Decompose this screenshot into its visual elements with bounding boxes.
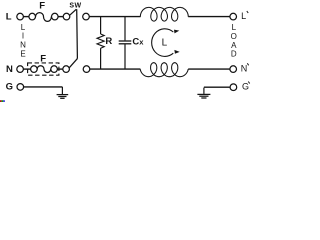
wire [24,86,63,88]
wire [100,48,102,69]
wire [124,44,126,69]
terminal L' [230,13,237,20]
svg-text:E: E [20,49,25,58]
svg-text:SW: SW [69,2,81,9]
fuse F (bottom) [31,66,38,73]
switch SW pole 2 [63,66,70,73]
fuse holder box [28,63,59,75]
svg-text:D: D [231,50,237,59]
svg-text:N: N [20,41,26,50]
svg-text:L: L [21,23,26,32]
wire [23,16,29,18]
terminal N [17,66,24,73]
svg-text:N: N [6,64,13,75]
label LOAD [231,23,237,59]
terminal N' [230,66,237,73]
svg-text:F: F [39,1,45,12]
terminal G [17,84,24,91]
switch SW pole 1 [63,13,70,20]
svg-text:L: L [6,12,12,23]
svg-text:O: O [231,32,237,41]
inductor top winding [140,7,188,21]
svg-text:I: I [22,32,24,41]
wire [23,68,30,70]
wire [188,16,230,18]
ground (left) [61,87,63,94]
wire [188,68,230,70]
svg-text:L: L [241,11,246,21]
resistor R [97,34,104,48]
svg-text:A: A [231,41,237,50]
label LINE [20,23,26,59]
terminal G' [230,84,237,91]
capacitor Cx [119,40,132,42]
terminal L [17,13,24,20]
switch link [76,9,79,58]
wire [89,16,140,18]
inductor bottom winding [140,63,188,77]
svg-text:N: N [241,64,248,74]
wire [204,86,230,88]
wire [57,68,62,70]
choke core arrows [152,29,174,57]
svg-text:G: G [6,82,13,93]
wire [100,17,102,34]
wire [90,68,141,70]
svg-text:Cx: Cx [132,37,144,48]
fuse F [29,13,36,20]
svg-text:L: L [162,37,168,48]
wire [124,17,126,40]
ground (right) [203,88,205,94]
svg-text:R: R [105,36,112,47]
wire [58,16,63,18]
svg-text:L: L [232,23,237,32]
svg-text:G: G [242,82,249,92]
